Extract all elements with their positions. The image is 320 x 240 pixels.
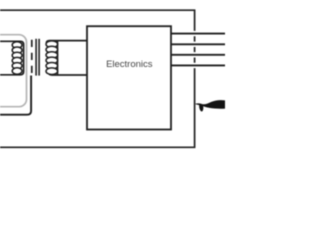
svg-text:Electronics: Electronics (106, 59, 153, 70)
